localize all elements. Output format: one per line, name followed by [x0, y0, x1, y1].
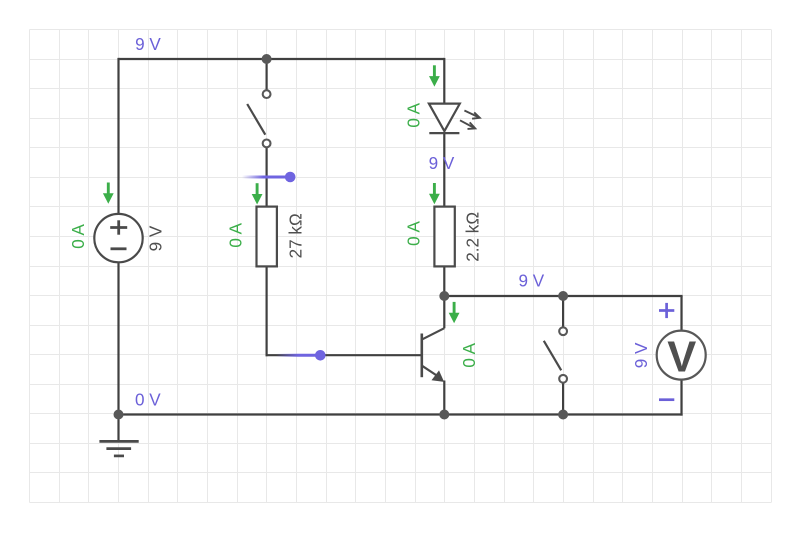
wire R1 to base corner	[266, 267, 268, 357]
current arrow into Q1 collector	[449, 302, 460, 323]
wire left rail upper	[117, 58, 119, 214]
switch S2	[544, 341, 561, 371]
resistor R1	[257, 207, 277, 267]
svg-text:0 V: 0 V	[135, 390, 161, 409]
wire R2 to collector node	[443, 267, 445, 298]
voltmeter minus sign	[659, 398, 674, 401]
wire base of Q1	[266, 354, 422, 356]
svg-text:0 A: 0 A	[69, 223, 88, 248]
floating wire stub node A	[242, 172, 296, 183]
svg-text:V: V	[667, 333, 696, 381]
svg-text:9 V: 9 V	[147, 225, 166, 251]
svg-text:27 kΩ: 27 kΩ	[286, 213, 305, 258]
svg-text:0 A: 0 A	[226, 222, 245, 247]
junction node R2 / Q1 collector	[439, 291, 449, 301]
svg-text:9 V: 9 V	[135, 35, 161, 54]
resistor R2	[434, 207, 454, 267]
junction node Q1 emitter / 0V	[439, 410, 449, 420]
wire voltmeter minus lead	[680, 380, 682, 415]
LED D1	[429, 104, 480, 134]
switch S2 terminal bottom	[559, 375, 567, 383]
wire switch S1 to R1	[266, 148, 268, 208]
wire top rail 9V	[119, 58, 445, 60]
current arrow into V1	[103, 183, 114, 204]
wire LED cathode to R2	[443, 132, 445, 207]
wire ground stem	[117, 415, 119, 442]
svg-text:9 V: 9 V	[518, 271, 544, 290]
wire switch S1 top lead	[266, 59, 268, 90]
voltmeter plus sign	[659, 303, 674, 318]
junction node S2 bottom / 0V	[558, 410, 568, 420]
switch S2 terminal top	[559, 327, 567, 335]
junction node top rail / S1	[262, 54, 272, 64]
switch S1 terminal bottom	[263, 140, 271, 148]
svg-text:0 A: 0 A	[405, 102, 424, 127]
wire Q1 collector lead	[443, 296, 445, 328]
wire Q1 emitter lead	[443, 381, 445, 415]
transistor Q1	[422, 328, 445, 382]
switch S1	[247, 104, 265, 135]
wire left rail lower	[117, 262, 119, 415]
svg-text:0 A: 0 A	[460, 342, 479, 367]
svg-text:2.2 kΩ: 2.2 kΩ	[463, 212, 482, 262]
wire LED anode lead	[443, 58, 445, 104]
switch S1 terminal top	[263, 90, 271, 98]
junction node 0V / ground	[114, 410, 124, 420]
svg-text:9 V: 9 V	[429, 154, 455, 173]
current arrow into R1	[252, 183, 263, 204]
wire switch S2 top lead	[562, 296, 564, 328]
junction node S2 top	[558, 291, 568, 301]
ground	[99, 441, 138, 456]
wire switch S2 bottom lead	[562, 383, 564, 415]
wire voltmeter plus lead	[680, 296, 682, 331]
wire bottom rail 0V	[117, 413, 682, 415]
voltmeter M1	[657, 331, 706, 382]
wire collector rail 9V	[444, 295, 682, 297]
svg-text:0 A: 0 A	[404, 221, 423, 246]
voltage source V1 9V	[94, 214, 142, 262]
current arrow into R2	[429, 183, 440, 204]
svg-text:9 V: 9 V	[632, 342, 651, 368]
current arrow into LED	[429, 65, 440, 86]
floating wire stub node B	[276, 350, 326, 361]
